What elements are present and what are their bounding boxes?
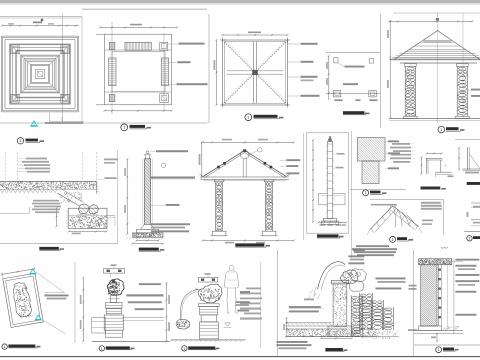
D23 right leader texts [455,259,479,261]
svg-text:1: 1 [469,237,471,241]
svg-text:1: 1 [364,190,367,195]
D20 pedestal column [201,315,216,322]
D7 left vertical dim [126,159,128,234]
D6 dashed verticals [5,152,7,181]
D6 slab stipple band [0,182,96,189]
D21 right vertical line [260,262,262,348]
D9 rafters [203,150,245,176]
D20 pedestal cap [198,304,219,307]
sheet bottom rule [0,356,480,358]
D22 bottom dim [321,337,352,339]
D15 top border [455,139,480,141]
D18 annotation texts [45,295,69,297]
svg-text:1: 1 [19,138,22,143]
D22 handwriting mark top [441,247,448,248]
D3 mid horizontal members [227,70,283,72]
D14 label [421,187,441,190]
D4 mid text [343,83,358,85]
D6 label [39,247,59,250]
D1 annotation text [45,122,83,124]
D22 label [325,348,343,351]
D5 roof upper gray band [420,40,456,43]
D6 slope diagonal [57,193,79,206]
D2 leader texts right [168,43,178,45]
D22 right texts near stones [376,278,406,280]
D5 roof triangle [395,31,480,60]
D19 box1 [106,303,123,309]
D9 leader texts right [280,159,286,161]
D3 center vertical member [253,42,255,103]
D1 cyan symbol [31,121,37,126]
D17 label [467,236,472,241]
D5 ground line [390,118,480,120]
D22 mid leader texts [304,299,314,301]
D2 left side hatch strip [109,58,116,86]
D5 under-eave beam [400,62,477,64]
D12 label [390,236,396,242]
D18 extension lines [36,272,65,293]
D23 left small texts [409,285,417,287]
D3 diagonals [224,42,285,103]
divider vertical row3 right of notes [277,250,279,356]
D3 corner marks [220,39,225,41]
D3 outer square [223,40,288,105]
D4 small top boxes [334,58,338,63]
D19 water lines left pond [92,318,106,334]
D22 spout arc [318,262,346,290]
D9 left vertical dim [201,142,203,177]
D2 inner rectangle [112,52,165,92]
D2 label [121,124,128,131]
D22 lower right gravel [361,331,398,339]
D9 top dimension [203,141,294,143]
D21 notes text lines [246,288,261,290]
D5 columns rubble [405,64,417,67]
D5 roof tier lines [415,45,461,47]
D22 right stepping stones stack [359,293,361,330]
D12 voussoir ticks left arm [394,204,396,208]
D20 bird sculpture [198,284,222,303]
D10 left dim [312,140,314,222]
sheet top gray band [0,0,480,3]
D13 note lines [356,245,389,247]
D22 left dim [286,318,288,337]
D20 ground line [171,339,246,341]
D20 person figure [229,265,234,270]
D3 leader texts right [288,43,301,45]
D18 label [2,344,7,349]
D5 top extension line [393,12,480,14]
D1 diagonal hips [10,45,30,65]
D5 left vertical dim [389,21,391,118]
D4 left dim [328,56,330,100]
svg-text:1: 1 [440,127,443,132]
D19 stem [111,296,117,303]
svg-text:1: 1 [123,125,126,130]
D7 footing hatched [133,233,164,237]
D4 beam line with end boxes [326,92,380,94]
svg-text:1: 1 [438,348,440,352]
D14 U-shape [426,157,443,159]
D6 slab sawtooth base [0,189,57,192]
D9 eave tips [199,174,203,176]
D15 diagonal [470,155,480,169]
D1 label [17,138,23,144]
divider vertical right of 1-1 section detail row2 [117,150,119,244]
D23 lower left text block [408,329,417,331]
D3 left dim [216,40,218,105]
D17 0-0 title text [421,187,440,189]
D2 top beam hatch strip [125,42,151,50]
D1 roof plan top extension lines [0,16,82,18]
D2 top-left pier hatched [109,42,115,49]
D22 circle symbol [356,272,360,276]
D6 right small texts [104,159,118,161]
D9 rafter joint dots [217,166,220,169]
D9 kingpost [242,159,244,177]
D18 cyan mark top [30,269,35,274]
D22 column shaft [333,284,347,327]
divider vertical row3 left of fountain craft [74,262,76,343]
D19 label [99,346,104,351]
D12 top leader text [371,204,397,206]
D23 wall right face lines [438,265,440,326]
D5 right leader texts [468,89,471,91]
D10 pole [327,142,333,219]
D12 right texts [421,202,441,204]
D11 leader texts [385,141,388,143]
D23 top hatched band [419,259,452,265]
D19 ornate finial [107,279,124,295]
top faint rule over pergola plan [82,8,207,10]
D20 water jet arc [180,290,197,321]
D9 apex circle detail [240,150,249,159]
D6 left small dim [56,208,58,226]
D18 dim along top edge [2,269,34,274]
D19 water line right [122,316,164,318]
D4 bottom small texts [335,99,343,101]
D6 lower annotation texts [33,200,59,202]
D7 finial [146,151,149,154]
D7 label [139,248,159,251]
D5 column bases [404,116,418,118]
D20 top key plan [198,277,218,282]
D12 drapery curves [394,208,417,228]
D23 bottom small dim [436,334,438,342]
D19 ground line [92,340,170,342]
D18 tilted outer square [1,267,45,328]
D10 bottom dim [319,222,347,224]
D2 bottom-left pier hatched [109,95,115,102]
D19 box2 [106,309,121,314]
D6 pit wall outside hatch [66,210,68,212]
D1 bottom leader lines [48,113,50,122]
D11 label [363,190,369,196]
divider vertical left of pavilion elevation [380,14,382,128]
D5 center axis [436,13,438,123]
D14 left dim [421,157,423,174]
D1 dimension line [2,25,79,27]
divider vertical right of ladder elevation [351,131,353,258]
D22 right stone wall [350,295,352,336]
D22 falling water droplets [314,286,316,296]
D10 small texts [337,153,345,155]
D22 footing under column [328,326,352,337]
D23 label [436,347,442,353]
D11 upper hatched slab [358,138,386,162]
divider vertical row3 right of 5-5 section [413,250,415,356]
D22 column cap [331,280,348,284]
D10 label [317,234,339,237]
bottom right rule above detail label [414,344,480,346]
D19 right leader texts [139,283,161,285]
D22 top right texts [353,249,365,251]
D19 left vertical dim [82,277,84,341]
D22 spray marks [308,290,320,300]
D12 extension lines [367,230,370,235]
D23 right vertical lines [447,262,449,330]
D23 footing [419,326,442,331]
D20 pedestal banded box [200,307,218,315]
D14 mid tick [444,165,447,167]
D15 left dim [458,148,460,170]
D19 top key plan [104,269,125,274]
D4 top border [326,52,380,54]
D22 pond floor [286,322,332,324]
D6 slab right cut edge [96,181,98,193]
D23 bottom texts [414,328,416,330]
D1 corner column boxes [10,45,19,54]
svg-text:1: 1 [247,115,250,120]
svg-text:1: 1 [392,237,395,242]
D22 bird/stone on column top [341,270,359,284]
D6 stacked annotation texts [26,158,47,160]
D9 bottom dim [203,240,294,242]
svg-text:1: 1 [101,347,103,351]
D10 frame [307,133,349,233]
D12 top border [370,199,444,201]
D6 pit bottom dim [69,230,107,232]
D17 legend lines [471,202,480,204]
D4 label [343,111,365,114]
D12 fan arms [370,206,393,230]
D18 cyan mark bottom [36,315,41,320]
svg-text:1: 1 [4,345,6,349]
D16 leader texts [392,143,410,145]
D20 water level mark [225,323,231,326]
D1 roof plan concentric squares [2,36,79,112]
D2 top dimension line [100,27,177,29]
D2 top-right pier [160,42,168,50]
D6 bottom border [0,243,118,245]
D2 bottom-right pier [160,94,169,103]
D19 big pedestal [104,315,123,330]
D6 L leader [0,213,30,215]
D5 eave line [390,59,480,61]
D15 texts [465,172,479,174]
D3 top dimension [223,34,288,36]
D20 label [182,346,187,351]
D6 boulders with hatch [79,204,89,214]
D14 top dim [427,153,442,155]
D20 base box [200,322,219,340]
D6 slab top line [0,180,97,182]
D5 top dimension line [390,20,473,22]
D9 columns [214,179,224,181]
D7 ground hatch ticks [126,237,128,239]
D19 right vertical dim [165,283,167,341]
divider line under row1 left [0,122,208,124]
D9 column bases [212,231,226,236]
D15 label [467,182,480,185]
D3 center dark joint [252,70,258,75]
D23 ties small squares [438,269,441,271]
D7 column shaft [144,159,150,225]
D20 right leader texts [240,291,250,293]
D7 bottom dims [137,240,159,242]
D9 tie beam [201,176,290,178]
D23 wall diagonal hatch [421,265,437,326]
svg-text:1: 1 [183,347,185,351]
D10 side brackets [319,193,328,195]
D7 base flare [141,224,155,229]
D6 pit box [68,208,107,228]
divider vertical right of gazebo section [303,133,305,240]
D22 bottom text block [277,341,308,343]
D15 L shape [467,147,469,170]
D20 splash stones [176,319,190,329]
D2 right side hatch strip [161,58,168,86]
D3 label [245,114,252,121]
D2 axis lines [111,22,113,114]
divider vertical between D2 and D3 [208,14,210,123]
D22 gravel band [287,329,376,336]
D11 lower hatched wall [362,161,379,184]
D6 pit right step [107,215,115,217]
D2 bottom dim [105,110,172,112]
D9 label [235,243,264,246]
D14 bottom step [436,171,452,173]
D12 voussoir ticks right arm [390,204,392,209]
D7 leader texts [151,151,156,153]
D10 pole base [323,219,337,222]
D18 statue blob [12,281,33,318]
D5 label [438,126,445,133]
D2 outer rectangle [105,34,172,105]
